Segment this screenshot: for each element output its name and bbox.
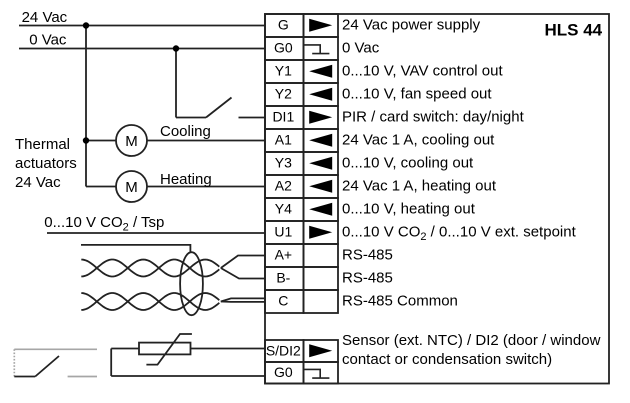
wire loop bottom to G0 bbox=[111, 375, 265, 377]
Y4 direction arrow (output) bbox=[309, 203, 332, 216]
svg-text:24 Vac: 24 Vac bbox=[15, 174, 61, 191]
node junction 0 Vac / DI1 branch bbox=[173, 45, 179, 51]
svg-text:PIR / card switch: day/night: PIR / card switch: day/night bbox=[342, 109, 525, 126]
terminal U1 box bbox=[265, 221, 304, 244]
wire to cooling motor bbox=[86, 140, 116, 142]
motor M1 cooling actuator bbox=[116, 125, 147, 156]
svg-text:RS-485: RS-485 bbox=[342, 247, 393, 264]
motor M2 heating actuator bbox=[116, 171, 147, 202]
svg-text:C: C bbox=[278, 293, 288, 309]
wire switch to DI1 bbox=[239, 117, 266, 119]
svg-text:DI1: DI1 bbox=[272, 109, 294, 125]
svg-text:0 Vac: 0 Vac bbox=[342, 40, 380, 57]
thermistor NTC diagonal mark bbox=[146, 334, 192, 365]
svg-text:Y1: Y1 bbox=[275, 63, 292, 79]
svg-text:0...10 V, VAV control out: 0...10 V, VAV control out bbox=[342, 63, 503, 80]
svg-text:RS-485 Common: RS-485 Common bbox=[342, 293, 458, 310]
node junction cooling branch bbox=[83, 137, 89, 143]
wire cooling motor to A1 bbox=[147, 140, 265, 142]
svg-text:Sensor (ext. NTC) / DI2 (door: Sensor (ext. NTC) / DI2 (door / window bbox=[342, 332, 601, 349]
wire NTC to loop bbox=[111, 348, 139, 350]
svg-text:0...10 V, heating out: 0...10 V, heating out bbox=[342, 201, 476, 218]
svg-text:Y3: Y3 bbox=[275, 155, 292, 171]
svg-text:Thermal: Thermal bbox=[15, 136, 70, 153]
svg-text:HLS 44: HLS 44 bbox=[545, 21, 603, 40]
wire twisted pair 1 conductor a bbox=[81, 260, 219, 277]
terminal A1 box bbox=[265, 129, 304, 152]
wire NTC loop left vertical bbox=[110, 349, 112, 377]
cable shield ellipse bbox=[180, 252, 203, 315]
svg-text:0...10 V, cooling out: 0...10 V, cooling out bbox=[342, 155, 474, 172]
svg-text:M: M bbox=[125, 179, 138, 196]
terminal Y4 box bbox=[265, 198, 304, 221]
wire contact left dotted (grey) bbox=[13, 349, 15, 376]
svg-text:U1: U1 bbox=[274, 224, 292, 240]
wire heating motor to A2 bbox=[147, 186, 265, 188]
terminal A2 box bbox=[265, 175, 304, 198]
wire twisted pair 1 conductor b bbox=[81, 260, 219, 277]
terminal G0 box bbox=[265, 37, 304, 60]
svg-text:A1: A1 bbox=[275, 132, 292, 148]
wire twisted pair 2 conductor b bbox=[81, 293, 219, 310]
wire pair 1 to A+ bbox=[221, 256, 265, 269]
Y1 direction arrow (output) bbox=[309, 65, 332, 78]
switch S1 blade (PIR / card switch) bbox=[206, 98, 232, 118]
wire contact top (grey, optional DI2 wiring) bbox=[14, 348, 97, 350]
svg-text:A+: A+ bbox=[275, 247, 293, 263]
U1 direction arrow (input) bbox=[309, 226, 332, 239]
svg-text:contact or condensation switch: contact or condensation switch) bbox=[342, 351, 552, 368]
Y3 direction arrow (output) bbox=[309, 157, 332, 170]
terminal B- box bbox=[265, 267, 304, 290]
terminal DI1 box bbox=[265, 106, 304, 129]
svg-text:M: M bbox=[125, 133, 138, 150]
terminal S/DI2 box bbox=[265, 340, 304, 362]
svg-text:24 Vac: 24 Vac bbox=[22, 9, 68, 26]
svg-text:A2: A2 bbox=[275, 178, 292, 194]
G direction arrow (input) bbox=[309, 19, 332, 32]
wire contact right segment (grey) bbox=[68, 376, 97, 378]
wire to heating motor bbox=[86, 186, 116, 188]
svg-text:24 Vac power supply: 24 Vac power supply bbox=[342, 17, 481, 34]
wire pair 2 lower lead to C bbox=[221, 301, 265, 303]
svg-text:0...10 V CO2 / Tsp: 0...10 V CO2 / Tsp bbox=[44, 214, 164, 234]
terminal G box bbox=[265, 14, 304, 37]
S/DI2 direction arrow (input) bbox=[309, 344, 332, 357]
wire G0 branch vertical to switch bbox=[175, 49, 177, 118]
wire pair 1 to B- bbox=[221, 268, 265, 279]
wire 0 Vac line bbox=[19, 48, 265, 50]
svg-text:Heating: Heating bbox=[160, 171, 212, 188]
controller outline box bbox=[265, 14, 609, 384]
terminal Y2 box bbox=[265, 83, 304, 106]
svg-text:B-: B- bbox=[276, 270, 290, 286]
svg-text:24 Vac 1 A, cooling out: 24 Vac 1 A, cooling out bbox=[342, 132, 495, 149]
terminal C box bbox=[265, 290, 304, 313]
Y2 direction arrow (output) bbox=[309, 88, 332, 101]
switch S2 blade (door/window contact) bbox=[35, 356, 59, 377]
svg-text:0 Vac: 0 Vac bbox=[29, 32, 67, 49]
svg-text:G: G bbox=[278, 17, 289, 33]
thermistor NTC body bbox=[139, 343, 191, 355]
wire NTC to S/DI2 bbox=[191, 348, 266, 350]
wire twisted pair 2 conductor a bbox=[81, 293, 219, 310]
svg-text:Y2: Y2 bbox=[275, 86, 292, 102]
svg-text:Cooling: Cooling bbox=[160, 123, 211, 140]
svg-text:actuators: actuators bbox=[15, 155, 77, 172]
wire pair 2 upper lead to C bbox=[221, 298, 265, 301]
terminal Y3 box bbox=[265, 152, 304, 175]
svg-text:RS-485: RS-485 bbox=[342, 270, 393, 287]
svg-text:G0: G0 bbox=[274, 364, 293, 380]
DI1 direction arrow (input) bbox=[309, 111, 332, 124]
wire 24 Vac vertical feed to actuators bbox=[85, 26, 87, 187]
wire contact pivot stub bbox=[14, 376, 35, 378]
A2 direction arrow (output) bbox=[309, 180, 332, 193]
svg-text:G0: G0 bbox=[274, 40, 293, 56]
terminal A+ box bbox=[265, 244, 304, 267]
svg-text:0...10 V, fan speed out: 0...10 V, fan speed out bbox=[342, 86, 492, 103]
svg-text:Y4: Y4 bbox=[275, 201, 292, 217]
node junction 24 Vac / G bbox=[83, 22, 89, 28]
wire cable shield drain bbox=[81, 245, 190, 252]
terminal Y1 box bbox=[265, 60, 304, 83]
G0 step signal symbol bbox=[304, 45, 320, 54]
wire CO2/Tsp signal to U1 bbox=[47, 232, 265, 234]
terminal G0 (bottom) box bbox=[265, 362, 304, 384]
svg-text:24 Vac 1 A, heating out: 24 Vac 1 A, heating out bbox=[342, 178, 497, 195]
A1 direction arrow (output) bbox=[309, 134, 332, 147]
wire 24 Vac supply line bbox=[19, 25, 265, 27]
svg-text:0...10 V CO2 / 0...10 V ext. s: 0...10 V CO2 / 0...10 V ext. setpoint bbox=[342, 224, 577, 244]
G0 (bottom) step signal symbol bbox=[304, 369, 320, 378]
svg-text:S/DI2: S/DI2 bbox=[266, 343, 301, 359]
wire switch feed horizontal bbox=[176, 117, 206, 119]
